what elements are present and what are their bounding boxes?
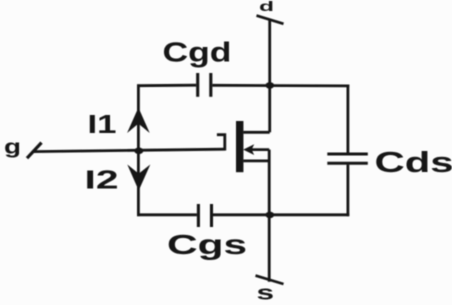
wire bottom-right (Cgs right plate to source net) bbox=[213, 213, 349, 216]
capacitor C_gd left plate bbox=[196, 73, 199, 97]
transistor M1 drain tab bbox=[243, 131, 269, 134]
wire drain vertical (d terminal to MOSFET drain) bbox=[268, 19, 271, 133]
svg-text:s: s bbox=[257, 283, 275, 305]
transistor M1 (MOSFET) bbox=[236, 121, 254, 172]
wire top-right (Cgd right plate to drain net) bbox=[212, 84, 349, 87]
svg-text:I2: I2 bbox=[85, 167, 119, 195]
capacitor C_gs right plate bbox=[210, 204, 213, 227]
capacitor C_ds top plate bbox=[327, 153, 368, 156]
svg-text:Cgs: Cgs bbox=[167, 229, 247, 260]
wire top-left (gate net to Cgd left plate) bbox=[137, 84, 196, 87]
transistor M1 gate hook bbox=[217, 135, 225, 151]
terminal slash g bbox=[27, 143, 42, 159]
svg-text:g: g bbox=[4, 137, 21, 159]
terminal slash s bbox=[256, 276, 284, 284]
transistor M1 body arrowhead bbox=[243, 144, 254, 155]
wire right vertical lower (Cds bottom plate to source net) bbox=[346, 165, 349, 217]
svg-text:I1: I1 bbox=[88, 111, 117, 139]
capacitor C_ds bottom plate bbox=[327, 162, 368, 165]
capacitor C_gd right plate bbox=[209, 73, 212, 97]
terminal slash d bbox=[257, 16, 284, 24]
arrow I1 (current up) bbox=[127, 108, 150, 134]
wire gate horizontal (g terminal to MOSFET gate) bbox=[33, 149, 225, 151]
arrow I2 (current down) bbox=[127, 165, 150, 191]
svg-text:Cds: Cds bbox=[375, 147, 452, 179]
wire right vertical upper (drain net to Cds top plate) bbox=[346, 85, 349, 153]
transistor M1 body arrow shaft bbox=[251, 148, 269, 151]
svg-text:Cgd: Cgd bbox=[163, 36, 232, 67]
svg-text:d: d bbox=[259, 0, 274, 14]
wire left vertical (gate branch with I1/I2) bbox=[137, 84, 140, 216]
node dot (drain net / top wire junction) bbox=[265, 82, 274, 89]
node dot (source net / bottom wire junction) bbox=[265, 212, 274, 219]
transistor M1 source tab bbox=[243, 159, 269, 162]
wire bottom-left (gate branch to Cgs left plate) bbox=[137, 213, 197, 216]
node dot (gate wire / left branch junction) bbox=[134, 148, 143, 155]
transistor M1 channel bar bbox=[236, 121, 243, 172]
capacitor C_gs left plate bbox=[197, 204, 200, 227]
wire source vertical (MOSFET source to s terminal) bbox=[268, 150, 271, 282]
